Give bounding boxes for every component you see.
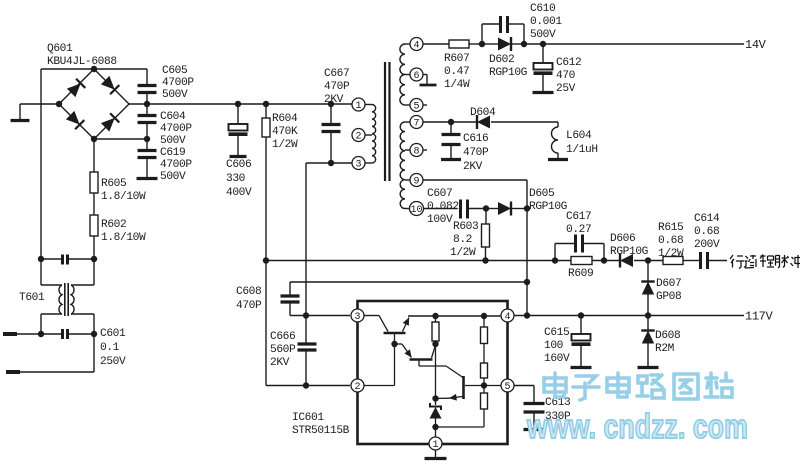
pin 1 (352, 98, 365, 111)
node (481, 313, 487, 319)
svg-text:C601: C601 (100, 328, 126, 340)
svg-text:STR50115B: STR50115B (292, 425, 350, 437)
svg-text:C619: C619 (160, 147, 185, 159)
diode D607 GP08 (647, 261, 649, 282)
wire (436, 426, 485, 428)
svg-text:4: 4 (413, 41, 419, 52)
pin 10 (410, 202, 424, 216)
svg-text:1.8/10W: 1.8/10W (101, 191, 146, 203)
svg-text:GP08: GP08 (656, 291, 681, 303)
node (38, 331, 44, 337)
svg-text:KBU4JL-6088: KBU4JL-6088 (47, 56, 117, 68)
node (524, 312, 530, 318)
svg-text:8.2: 8.2 (453, 234, 472, 246)
svg-text:470K: 470K (272, 126, 298, 138)
transistor Q3 (IC internal, power) (436, 376, 502, 401)
svg-text:5: 5 (504, 382, 510, 393)
wire (20, 103, 59, 105)
pin 2 (352, 129, 365, 142)
node (432, 313, 438, 319)
node (479, 41, 485, 47)
node (bridge top vertex) (91, 66, 97, 72)
wire (93, 334, 95, 372)
node (91, 331, 97, 337)
wire (423, 208, 457, 210)
ground (IC pin1) (435, 450, 437, 457)
svg-text:C667: C667 (324, 68, 349, 80)
svg-text:C610: C610 (530, 3, 556, 15)
capacitor C615 100 160V (electrolytic) (580, 316, 582, 335)
svg-text:1: 1 (432, 440, 438, 451)
svg-text:C604: C604 (160, 111, 186, 123)
node (483, 205, 489, 211)
svg-text:C614: C614 (694, 213, 720, 225)
transformer secondary winding (pins 4-5-6) (400, 44, 410, 105)
node (328, 160, 334, 166)
svg-text:4700P: 4700P (162, 77, 194, 89)
wire (main HV bus) (129, 103, 352, 105)
pin 4 (410, 38, 423, 51)
capacitor C614 0.68 200V (699, 252, 702, 269)
resistor R609 (571, 257, 592, 265)
svg-text:4: 4 (504, 312, 510, 323)
node (521, 41, 527, 47)
node (524, 279, 530, 285)
svg-text:D606: D606 (610, 233, 635, 245)
svg-text:470: 470 (556, 70, 576, 82)
node (645, 312, 651, 318)
svg-text:3: 3 (354, 312, 360, 323)
svg-text:0.68: 0.68 (658, 235, 683, 247)
capacitor C666 560P 2KV (305, 316, 307, 344)
svg-text:1: 1 (355, 101, 361, 112)
svg-text:5: 5 (413, 102, 419, 113)
wire (transformer pin3 to IC pin3) (306, 162, 352, 164)
AC input terminal (upper) (3, 332, 17, 336)
wire (17, 333, 61, 335)
node (303, 312, 309, 318)
svg-text:500V: 500V (162, 89, 188, 101)
node (432, 395, 438, 401)
svg-text:Q601: Q601 (47, 43, 73, 55)
capacitor C604 4700P 500V (146, 104, 148, 114)
resistor R615 0.68 1/2W (663, 257, 683, 265)
svg-text:4700P: 4700P (160, 159, 192, 171)
svg-text:C612: C612 (556, 57, 581, 69)
svg-text:400V: 400V (226, 187, 252, 199)
svg-text:0.47: 0.47 (444, 66, 469, 78)
node (38, 256, 44, 262)
pin 9 (410, 174, 423, 187)
svg-text:R609: R609 (568, 268, 593, 280)
svg-text:C607: C607 (427, 188, 452, 200)
capacitor C608 470P (290, 281, 527, 283)
svg-text:330: 330 (226, 173, 246, 185)
svg-text:10: 10 (410, 205, 422, 216)
capacitor C610 0.001 500V (481, 24, 483, 44)
svg-text:2: 2 (354, 382, 360, 393)
svg-text:100V: 100V (427, 214, 453, 226)
svg-text:0.27: 0.27 (566, 224, 591, 236)
svg-text:C606: C606 (226, 159, 251, 171)
node (482, 257, 488, 263)
svg-text:117V: 117V (745, 310, 773, 324)
node (540, 41, 546, 47)
wire (94, 138, 147, 140)
diode D605 RGP10G (486, 208, 498, 210)
svg-text:R615: R615 (658, 222, 683, 234)
ground (pin 6) (423, 74, 427, 76)
wire (486, 260, 572, 262)
node (144, 136, 150, 142)
node (578, 312, 584, 318)
capacitor C601 0.1 250V (61, 329, 64, 339)
label flyback pulse (Chinese) (730, 255, 800, 269)
resistor R604 470K 1/2W (265, 104, 267, 118)
transistor Q2 (IC internal) (395, 344, 464, 378)
capacitor C606 330 400V (electrolytic) (237, 104, 239, 124)
svg-text:500V: 500V (160, 135, 186, 147)
svg-text:1/2W: 1/2W (450, 247, 476, 259)
pin 7 (410, 116, 423, 129)
svg-text:2: 2 (355, 132, 361, 143)
AC input terminal (lower) (6, 370, 20, 374)
svg-text:R604: R604 (272, 113, 298, 125)
zener diode (IC internal) (430, 399, 442, 438)
svg-text:R602: R602 (101, 219, 126, 231)
resistor (IC internal, upper) (435, 316, 437, 322)
node (524, 205, 530, 211)
node (328, 101, 334, 107)
wire (117V rail) (514, 315, 744, 317)
svg-text:C605: C605 (162, 65, 187, 77)
resistor R602 1.8/10W (90, 215, 98, 236)
pin 8 (410, 144, 423, 157)
pin 3 (352, 157, 365, 170)
capacitor (line filter top) (41, 258, 61, 260)
resistor R607 0.47 1/4W (449, 40, 469, 48)
wire (423, 43, 449, 45)
wire (pin2 internal) (364, 385, 395, 387)
svg-text:4700P: 4700P (160, 123, 192, 135)
wire (146, 69, 148, 85)
svg-text:D608: D608 (655, 330, 680, 342)
node (552, 257, 558, 263)
diode D606 RGP10G (620, 254, 633, 267)
svg-text:560P: 560P (270, 344, 296, 356)
node (144, 101, 150, 107)
pin 6 (410, 68, 423, 81)
svg-text:R603: R603 (453, 221, 478, 233)
wire (pin 9 to B+ diode rail) (423, 179, 527, 181)
svg-text:RGP10G: RGP10G (529, 201, 568, 213)
diode D602 RGP10G (482, 43, 498, 45)
svg-text:100: 100 (544, 340, 564, 352)
svg-text:IC601: IC601 (292, 412, 324, 424)
svg-text:1/4W: 1/4W (444, 79, 470, 91)
pin 5 (410, 99, 423, 112)
svg-text:1/2W: 1/2W (272, 139, 298, 151)
svg-text:9: 9 (413, 177, 419, 188)
svg-text:T601: T601 (19, 292, 45, 304)
svg-text:D607: D607 (656, 278, 681, 290)
node (235, 101, 241, 107)
diode D608 R2M (647, 316, 649, 331)
svg-text:0.082: 0.082 (427, 201, 459, 213)
pin 3 (IC) (351, 309, 364, 322)
svg-text:R2M: R2M (655, 343, 674, 355)
resistor R605 1.8/10W (93, 139, 95, 172)
svg-text:470P: 470P (324, 81, 350, 93)
transformer primary winding (pins 1-3) (365, 105, 376, 164)
pin 5 (IC) (501, 379, 514, 392)
node (bridge left vertex) (56, 101, 62, 107)
svg-text:2KV: 2KV (270, 357, 290, 369)
svg-text:C617: C617 (566, 211, 591, 223)
capacitor C617 0.27 (554, 244, 556, 261)
svg-text:C616: C616 (463, 133, 488, 145)
node (481, 382, 487, 388)
capacitor C607 0.082 100V (459, 200, 462, 219)
svg-text:C666: C666 (270, 331, 295, 343)
watermark (site logo, decorative) (544, 373, 732, 400)
svg-text:500V: 500V (530, 29, 556, 41)
svg-text:RGP10G: RGP10G (489, 67, 528, 79)
svg-text:RGP10G: RGP10G (610, 246, 649, 258)
svg-text:3: 3 (355, 160, 361, 171)
IC U1 IC601 STR50115B (outline) (358, 301, 508, 444)
node (263, 101, 269, 107)
node (303, 382, 309, 388)
wire (514, 385, 534, 387)
inductor L604 1/1uH (557, 122, 559, 127)
svg-text:500V: 500V (160, 171, 186, 183)
capacitor C667 470P 2KV (330, 104, 332, 123)
svg-text:L604: L604 (566, 130, 592, 142)
wire (423, 121, 477, 123)
wire (524, 43, 744, 45)
node (601, 257, 607, 263)
svg-text:470P: 470P (463, 147, 489, 159)
node (448, 119, 454, 125)
resistor chain (IC internal, right column) (481, 316, 488, 427)
node (391, 341, 397, 347)
wire (290, 315, 350, 317)
pin 2 (IC) (351, 379, 364, 392)
node (bridge bottom vertex) (91, 136, 97, 142)
svg-text:C615: C615 (544, 327, 569, 339)
wire (internal top rail) (408, 315, 501, 317)
svg-text:R607: R607 (444, 53, 469, 65)
capacitor C605 4700P 500V (138, 84, 157, 87)
node (432, 341, 438, 347)
pin 1 (IC) (429, 437, 442, 450)
bridge rectifier Q601 KBV4JL-6088 (59, 69, 129, 139)
transistor Q1 (IC internal) (364, 316, 409, 345)
wire (435, 341, 437, 399)
node (263, 257, 269, 263)
diode D604 (477, 116, 490, 129)
svg-text:C608: C608 (236, 286, 261, 298)
node (432, 424, 438, 430)
svg-text:0.001: 0.001 (530, 16, 562, 28)
wire (top frame) (41, 68, 147, 70)
svg-text:www. cndzz. com: www. cndzz. com (526, 408, 748, 446)
svg-text:1.8/10W: 1.8/10W (101, 232, 146, 244)
capacitor C612 470 25V (electrolytic) (542, 44, 544, 63)
svg-text:1/1uH: 1/1uH (566, 144, 598, 156)
transformer secondary winding (pins 7-10) (400, 122, 410, 209)
node (645, 257, 651, 263)
capacitor C613 330P (524, 402, 545, 405)
svg-text:470P: 470P (236, 300, 262, 312)
svg-text:8: 8 (413, 147, 419, 158)
svg-text:6: 6 (413, 71, 419, 82)
transformer core (384, 62, 386, 181)
resistor R603 8.2 1/2W (485, 209, 487, 225)
svg-text:7: 7 (413, 119, 419, 130)
svg-text:160V: 160V (544, 353, 570, 365)
svg-text:0.1: 0.1 (100, 342, 120, 354)
svg-text:200V: 200V (694, 239, 720, 251)
svg-text:D602: D602 (489, 54, 514, 66)
svg-text:250V: 250V (100, 356, 126, 368)
capacitor C616 470P 2KV (450, 122, 452, 133)
svg-text:D605: D605 (529, 188, 554, 200)
svg-text:2KV: 2KV (463, 161, 483, 173)
svg-text:R605: R605 (101, 178, 126, 190)
svg-text:25V: 25V (556, 83, 576, 95)
svg-text:14V: 14V (745, 38, 767, 52)
svg-text:D604: D604 (470, 107, 496, 119)
wire (return bus to IC pin2) (265, 261, 267, 386)
svg-text:0.68: 0.68 (694, 226, 719, 238)
transformer T601 (line filter) (41, 259, 94, 334)
pin 4 (IC) (501, 309, 514, 322)
svg-text:1/2W: 1/2W (658, 248, 684, 260)
wire (primary return bus) (266, 260, 486, 262)
ground (chassis, AC input left) (19, 104, 21, 119)
node (91, 256, 97, 262)
svg-text:2KV: 2KV (324, 94, 344, 106)
capacitor C619 4700P 500V (146, 139, 148, 149)
